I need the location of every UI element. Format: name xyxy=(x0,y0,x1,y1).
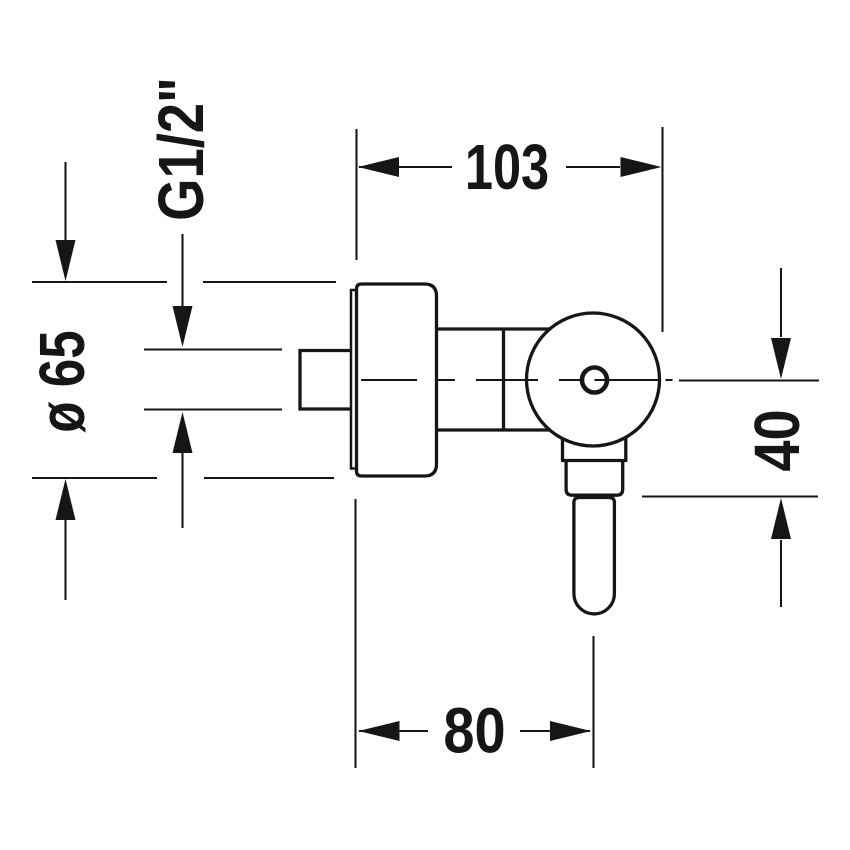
40 arrow shafts xyxy=(780,268,782,337)
103 right arrow xyxy=(621,157,662,177)
barrel body xyxy=(438,329,551,430)
svg-text:G1/2": G1/2" xyxy=(145,77,217,221)
80 left arrow xyxy=(359,721,400,741)
103 left arrow xyxy=(358,157,399,177)
lever handle capsule xyxy=(574,498,615,614)
G1/2 down arrow xyxy=(173,306,193,347)
svg-text:40: 40 xyxy=(742,409,813,471)
svg-text:80: 80 xyxy=(443,695,505,766)
escutcheon rounded flange xyxy=(357,284,437,476)
40 extension lines xyxy=(642,381,819,497)
valve round body xyxy=(527,313,660,446)
80 extension lines xyxy=(356,499,594,768)
103 extension lines xyxy=(355,129,357,260)
103 dim line xyxy=(359,166,620,168)
cartridge small circle xyxy=(582,368,607,393)
collar under valve xyxy=(561,438,627,461)
40 up arrow xyxy=(771,498,791,539)
adapter block xyxy=(566,461,623,496)
40 down arrow xyxy=(771,338,791,379)
dia65 down arrow xyxy=(56,240,76,281)
G1/2 extension lines at spigot edges xyxy=(144,348,282,350)
dia 65 arrow shafts xyxy=(64,162,66,240)
svg-text:ø 65: ø 65 xyxy=(28,330,99,432)
G1/2 up arrow xyxy=(173,412,193,453)
80 right arrow xyxy=(550,721,591,741)
thin washer strip xyxy=(351,290,357,469)
dia 65 extension lines xyxy=(32,281,336,283)
inlet spigot G1/2 xyxy=(300,351,350,410)
G1/2 leader shafts xyxy=(181,234,183,306)
svg-text:103: 103 xyxy=(465,132,549,203)
dia65 up arrow xyxy=(56,479,76,520)
80 dim line xyxy=(359,730,590,732)
